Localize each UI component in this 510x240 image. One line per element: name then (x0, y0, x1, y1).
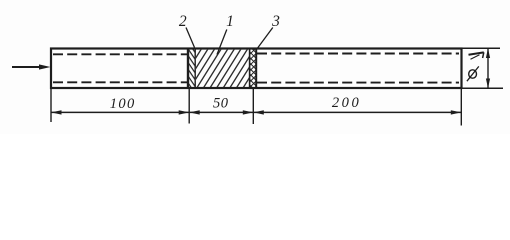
dimension line chain (51, 111, 461, 113)
dim arrows at x=189 (179, 110, 190, 114)
diameter extension line bottom (463, 87, 504, 89)
rod outline (51, 49, 462, 89)
leader 1 (217, 30, 227, 55)
extension line joint-right (x=253.5) (252, 89, 254, 124)
section 2: left solder strip (\\ hatch) (188, 49, 195, 89)
dim arrows at x=253.5 (243, 110, 254, 114)
svg-text:50: 50 (213, 95, 229, 111)
dim arrow at x=461.5 pointing right (451, 110, 462, 114)
leader 2 (186, 28, 195, 48)
section 1: sleeve (/ hatch) (196, 50, 249, 87)
diameter text 7 (rotated) (469, 52, 484, 59)
svg-text:200: 200 (332, 95, 362, 111)
svg-text:1: 1 (226, 13, 234, 30)
hidden line top right (257, 53, 459, 55)
section 3: right solder strip (cross hatch) (250, 49, 257, 89)
extension line right (x=461.5) (460, 89, 462, 126)
hidden line bottom right (257, 82, 459, 84)
hidden line bottom left (53, 81, 187, 83)
diameter symbol (467, 66, 479, 81)
hidden line top left (53, 53, 187, 55)
extension line left (x=51) (50, 89, 52, 122)
load arrow (12, 64, 51, 69)
diameter dimension line (487, 48, 489, 88)
diameter arrow down (486, 79, 490, 89)
svg-text:100: 100 (110, 96, 136, 112)
diameter arrow up (486, 48, 490, 58)
leader 3 (257, 28, 273, 50)
svg-text:2: 2 (179, 13, 187, 30)
dim arrow at x=51 pointing left (51, 110, 62, 114)
diameter extension line top (463, 47, 501, 49)
extension line joint-left (x=189) (188, 89, 190, 124)
